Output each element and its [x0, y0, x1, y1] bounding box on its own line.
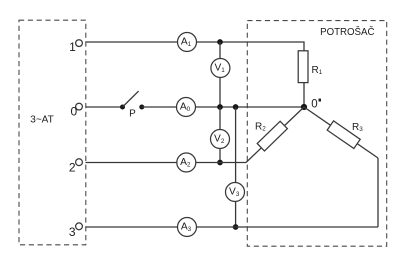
resistor R1 leads: [303, 83, 305, 108]
source box 3~AT (dashed): [19, 20, 86, 245]
switch P: [120, 91, 144, 120]
voltmeter V3: [226, 183, 245, 202]
junction L0 / V3 branch: [233, 104, 239, 110]
svg-text:0: 0: [311, 99, 317, 111]
wire R3 diagonal: node 0' to right corner: [304, 107, 378, 158]
terminal 1: [69, 40, 82, 55]
junction L3 / V3: [233, 224, 239, 230]
consumer box POTROSAC (dashed): [247, 21, 386, 247]
resistor R1: [298, 51, 323, 83]
wire R2 diagonal: L2 end to node 0': [246, 107, 304, 163]
wire L0: terminal 0 to switch: [86, 106, 123, 108]
terminal 0: [71, 103, 83, 118]
wire L3: terminal 3 to A3: [86, 226, 178, 228]
ammeter A3: [178, 218, 197, 237]
wire right riser: corner down to L3: [377, 158, 379, 227]
ammeter A2: [177, 153, 196, 172]
svg-text:POTROŠAČ: POTROŠAČ: [320, 27, 374, 38]
svg-text:3: 3: [69, 225, 76, 239]
wire L1: terminal 1 to A1: [86, 41, 178, 43]
voltmeter V2: [211, 130, 230, 149]
wire L2: terminal 2 to A2: [86, 162, 177, 164]
wire V3 branch from L0 down to V3: [235, 107, 237, 183]
resistor R2: [255, 121, 287, 151]
svg-text:3~AT: 3~AT: [30, 114, 53, 125]
node 0': [301, 99, 321, 111]
svg-text:2: 2: [69, 161, 76, 175]
voltmeter V1: [211, 59, 230, 78]
svg-text:0: 0: [71, 104, 78, 118]
wire L0: switch to A0: [142, 106, 177, 108]
wire V2 lower lead: [219, 149, 221, 163]
svg-text:1: 1: [69, 40, 76, 54]
wire L2: A2 into consumer box: [196, 162, 246, 164]
terminal 2: [69, 159, 83, 175]
wire V2 upper lead: [219, 107, 221, 130]
ammeter A0: [177, 98, 196, 117]
wire V3 lower lead: [235, 202, 237, 228]
wire L0: A0 to node 0': [196, 106, 305, 108]
ammeter A1: [178, 33, 197, 52]
svg-text:P: P: [129, 109, 136, 120]
terminal 3: [69, 223, 83, 239]
junction L0 / V1-V2: [217, 104, 223, 110]
wire L1: A1 to R1 top: [197, 42, 305, 51]
junction L2 / V2: [217, 160, 223, 166]
junction L1 / V1: [217, 39, 223, 45]
wire L3: A3 to right riser: [197, 226, 379, 228]
wire V1 lower lead: [219, 78, 221, 108]
resistor R3: [327, 121, 363, 149]
wire V1 upper lead: [219, 42, 221, 59]
